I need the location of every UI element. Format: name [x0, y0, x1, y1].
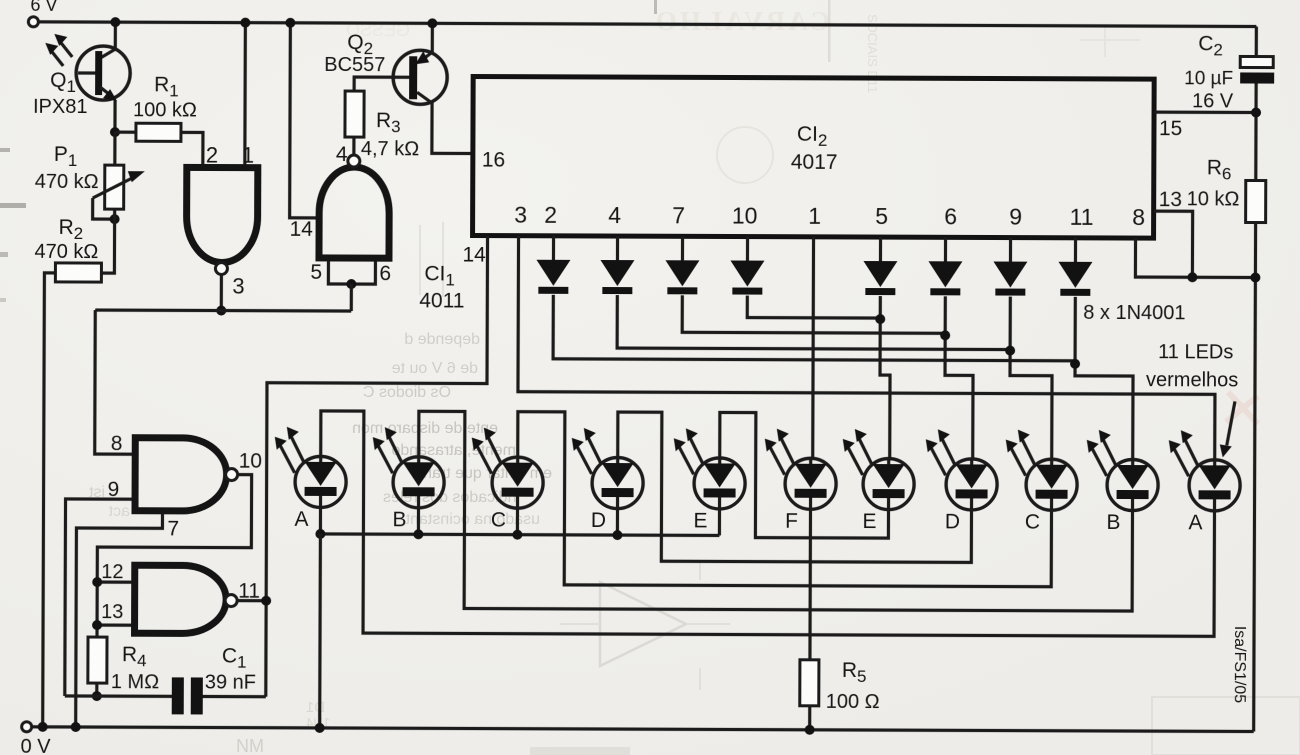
wire R3 to Q2 base — [354, 77, 409, 91]
svg-text:5: 5 — [310, 261, 322, 284]
svg-text:6 V: 6 V — [30, 0, 57, 15]
svg-text:10: 10 — [732, 203, 758, 229]
svg-text:16 V: 16 V — [1192, 90, 1234, 112]
resistor R3 — [345, 91, 364, 137]
LED B — [1107, 459, 1158, 510]
svg-text:1 MΩ: 1 MΩ — [111, 671, 159, 693]
svg-text:11 LEDs: 11 LEDs — [1158, 341, 1233, 363]
svg-text:NM: NM — [236, 736, 264, 755]
wire LED cathode x=519 — [516, 509, 519, 535]
LED A — [1189, 460, 1240, 511]
wire LED cathode x=619 — [616, 509, 619, 535]
wire pin1 to LED F — [811, 237, 815, 459]
diode 1N4001 at pin x=1011 — [1009, 238, 1012, 264]
LED D — [592, 457, 643, 508]
LED B — [393, 457, 444, 508]
node Q1/R1/P1 junction — [110, 127, 120, 137]
svg-text:14: 14 — [290, 218, 314, 241]
LED F — [785, 458, 836, 509]
wire diode 1011 to LED riser — [1010, 297, 1053, 460]
svg-text:13: 13 — [101, 601, 123, 623]
LED E — [694, 458, 745, 509]
wire gate2 output to R3 — [352, 137, 355, 156]
wire node3 to gate2 inputs — [350, 284, 353, 311]
node 3 junction — [216, 306, 226, 316]
svg-text:B: B — [1106, 511, 1120, 534]
resistor R2 — [55, 263, 101, 282]
svg-text:E: E — [693, 509, 707, 532]
wire right rail — [1254, 27, 1257, 732]
wire LED cathode x=420 — [417, 508, 420, 534]
svg-text:8: 8 — [111, 432, 123, 455]
wire P1 to R2 — [101, 209, 114, 273]
svg-text:F: F — [785, 510, 798, 533]
svg-text:1: 1 — [242, 143, 254, 168]
diode 1N4001 at pin x=881 — [879, 237, 882, 263]
svg-text:B: B — [392, 508, 406, 531]
wire node X — [65, 694, 172, 698]
wire CI1 pin14 from rail — [290, 23, 317, 218]
svg-text:em evitar que transi: em evitar que transi — [411, 465, 552, 482]
svg-text:11: 11 — [1070, 204, 1094, 230]
op gate U1d NAND — [135, 565, 227, 633]
svg-text:15: 15 — [1159, 117, 1182, 140]
svg-text:470 kΩ: 470 kΩ — [35, 171, 99, 193]
svg-text:12: 12 — [101, 561, 123, 583]
diode 1N4001 at pin x=618 — [616, 236, 619, 262]
svg-text:usado na ocinstant: usado na ocinstant — [405, 511, 540, 528]
wire gate3 out to gate4 in — [97, 474, 252, 638]
svg-text:1: 1 — [808, 203, 821, 229]
wire LED pair link 519 — [517, 412, 1052, 587]
node 0V terminal — [22, 722, 32, 732]
transistor Q2 — [393, 50, 447, 104]
diode 1N4001 at pin x=1076 — [1074, 238, 1077, 264]
wire R4 bottom — [95, 683, 98, 696]
svg-text:4,7 kΩ: 4,7 kΩ — [361, 138, 419, 160]
svg-text:7: 7 — [672, 202, 685, 228]
wire pin13 — [97, 623, 131, 626]
transistor Q1 — [76, 46, 130, 100]
svg-text:BC557: BC557 — [324, 54, 385, 76]
svg-text:9: 9 — [1009, 204, 1022, 230]
diode 1N4001 at pin x=946 — [944, 237, 947, 263]
annotation arrow — [1227, 401, 1235, 445]
svg-text:CARVALHO: CARVALHO — [653, 6, 830, 36]
wire gate4 out — [237, 599, 266, 602]
svg-text:4017: 4017 — [791, 151, 838, 174]
wire pin7 ground — [76, 513, 163, 727]
node 6V terminal — [28, 17, 38, 27]
LED E — [863, 459, 914, 510]
wire gate2 inputs tie — [328, 261, 375, 284]
wire CI2 pin14 clock — [266, 235, 488, 698]
svg-text:10: 10 — [239, 450, 262, 473]
svg-text:act: act — [108, 503, 130, 520]
wire diode 946 to LED riser — [945, 296, 974, 459]
svg-text:4: 4 — [608, 202, 621, 228]
LED C — [1026, 459, 1077, 510]
svg-text:D: D — [591, 509, 606, 532]
svg-text:0 V: 0 V — [21, 736, 52, 755]
wire pin9 — [65, 499, 132, 696]
resistor R1 — [136, 123, 181, 141]
op gate U1c NAND — [135, 438, 227, 511]
svg-text:8 x 1N4001: 8 x 1N4001 — [1083, 302, 1185, 324]
svg-text:13: 13 — [1159, 188, 1182, 211]
svg-text:39 nF: 39 nF — [205, 671, 256, 693]
LED D — [946, 459, 997, 510]
wire diode 683 to 946 — [682, 295, 945, 333]
svg-text:ente de disparo mon: ente de disparo mon — [352, 420, 498, 437]
LED C — [492, 457, 543, 508]
wire diode 1076 to LED riser — [1075, 297, 1134, 460]
wire diode 881 to LED riser — [880, 296, 891, 459]
wire Q2 emitter from rail — [431, 23, 434, 52]
wire LED pair link 420 — [418, 411, 1133, 611]
wire diode 748 to 881 — [747, 296, 880, 319]
svg-text:D1: D1 — [306, 699, 325, 716]
wire pin12 — [97, 580, 131, 583]
svg-text:10 kΩ: 10 kΩ — [1187, 188, 1240, 210]
svg-text:10 µF: 10 µF — [1184, 68, 1233, 89]
svg-text:Os diodos C: Os diodos C — [363, 384, 451, 401]
wire 0V bottom rail — [32, 727, 1254, 732]
svg-text:16: 16 — [482, 149, 505, 172]
wire LED pair link 721 — [719, 412, 888, 538]
op gate U1a NAND — [186, 167, 257, 262]
diode 1N4001 at pin x=748 — [746, 237, 749, 263]
svg-text:Isa/FS1/05: Isa/FS1/05 — [1231, 626, 1248, 704]
wire R2 to 0V — [43, 273, 56, 727]
potentiometer P1 — [105, 165, 124, 209]
wire pin8 — [1135, 238, 1255, 277]
svg-text:A: A — [1188, 511, 1202, 534]
wire cathode bus — [320, 534, 719, 536]
wire node3 to pin8 — [95, 310, 133, 454]
svg-text:C: C — [491, 509, 506, 532]
wire LED pair link 322 — [320, 411, 1215, 636]
wire Q1 emitter down — [113, 100, 116, 132]
svg-text:depende d: depende d — [404, 331, 480, 348]
capacitor C2 — [1240, 56, 1273, 67]
op gate U1b NAND inverted — [319, 167, 389, 258]
svg-text:4011: 4011 — [419, 289, 464, 312]
svg-text:2: 2 — [206, 142, 218, 167]
svg-text:de 6 V ou te: de 6 V ou te — [392, 360, 478, 377]
wire pin13 — [1153, 211, 1192, 277]
wire gate1 input 1 from rail — [243, 23, 247, 168]
resistor R5 — [800, 660, 819, 706]
resistor R4 — [88, 637, 107, 683]
resistor R6 — [1246, 180, 1266, 222]
LED A — [295, 456, 346, 507]
svg-text:3: 3 — [232, 274, 244, 299]
wire diode 618 to 1011 — [617, 295, 1010, 350]
wire LED pair link 619 — [617, 412, 972, 562]
svg-text:7: 7 — [167, 517, 179, 540]
wire R1 left lead — [115, 131, 136, 134]
svg-text:5: 5 — [875, 203, 888, 229]
svg-text:A: A — [294, 508, 308, 531]
svg-text:100 kΩ: 100 kΩ — [133, 99, 197, 121]
node P1/R2 junction — [110, 214, 120, 224]
wire LED F cathode to R5 — [808, 510, 812, 660]
wire C1 right — [203, 695, 266, 698]
Q1 light arrows — [60, 42, 72, 57]
wire LED cathode x=721 — [718, 509, 721, 535]
wire bus to 0V — [318, 534, 322, 728]
svg-text:8: 8 — [1132, 204, 1145, 230]
svg-text:C: C — [1025, 511, 1040, 534]
svg-text:vermelhos: vermelhos — [1146, 369, 1238, 391]
svg-text:IPX81: IPX81 — [33, 96, 88, 118]
op-amp CI2 4017 box — [473, 77, 1155, 239]
wire gate1 output — [220, 274, 223, 311]
wire Q1 collector from rail — [100, 22, 115, 58]
svg-text:4: 4 — [336, 143, 348, 166]
wire R1 to gate pin2 — [181, 132, 203, 167]
svg-text:2: 2 — [544, 202, 557, 228]
wire Q2 collector to pin16 — [432, 102, 473, 153]
svg-text:14: 14 — [462, 243, 486, 266]
svg-text:100 Ω: 100 Ω — [826, 691, 880, 713]
wire R5 to 0V — [808, 706, 811, 730]
svg-text:D: D — [945, 510, 960, 533]
capacitor C1 — [172, 677, 184, 714]
wire pin3 run — [518, 236, 1216, 461]
diode 1N4001 at pin x=554 — [552, 236, 555, 262]
svg-text:E: E — [862, 510, 876, 533]
diode 1N4001 at pin x=683 — [681, 236, 684, 262]
wire diode 554 to 1076 — [553, 295, 1075, 361]
svg-text:6: 6 — [379, 262, 391, 285]
wire pin15 — [1154, 111, 1256, 115]
wire LED cathode x=322 — [319, 508, 322, 534]
svg-text:470 kΩ: 470 kΩ — [34, 241, 98, 263]
svg-text:3: 3 — [514, 202, 527, 228]
svg-text:6: 6 — [944, 203, 957, 229]
wire P1 top lead — [113, 132, 116, 165]
wire node3 bus — [95, 308, 351, 312]
wire 6V top rail — [38, 22, 1256, 27]
